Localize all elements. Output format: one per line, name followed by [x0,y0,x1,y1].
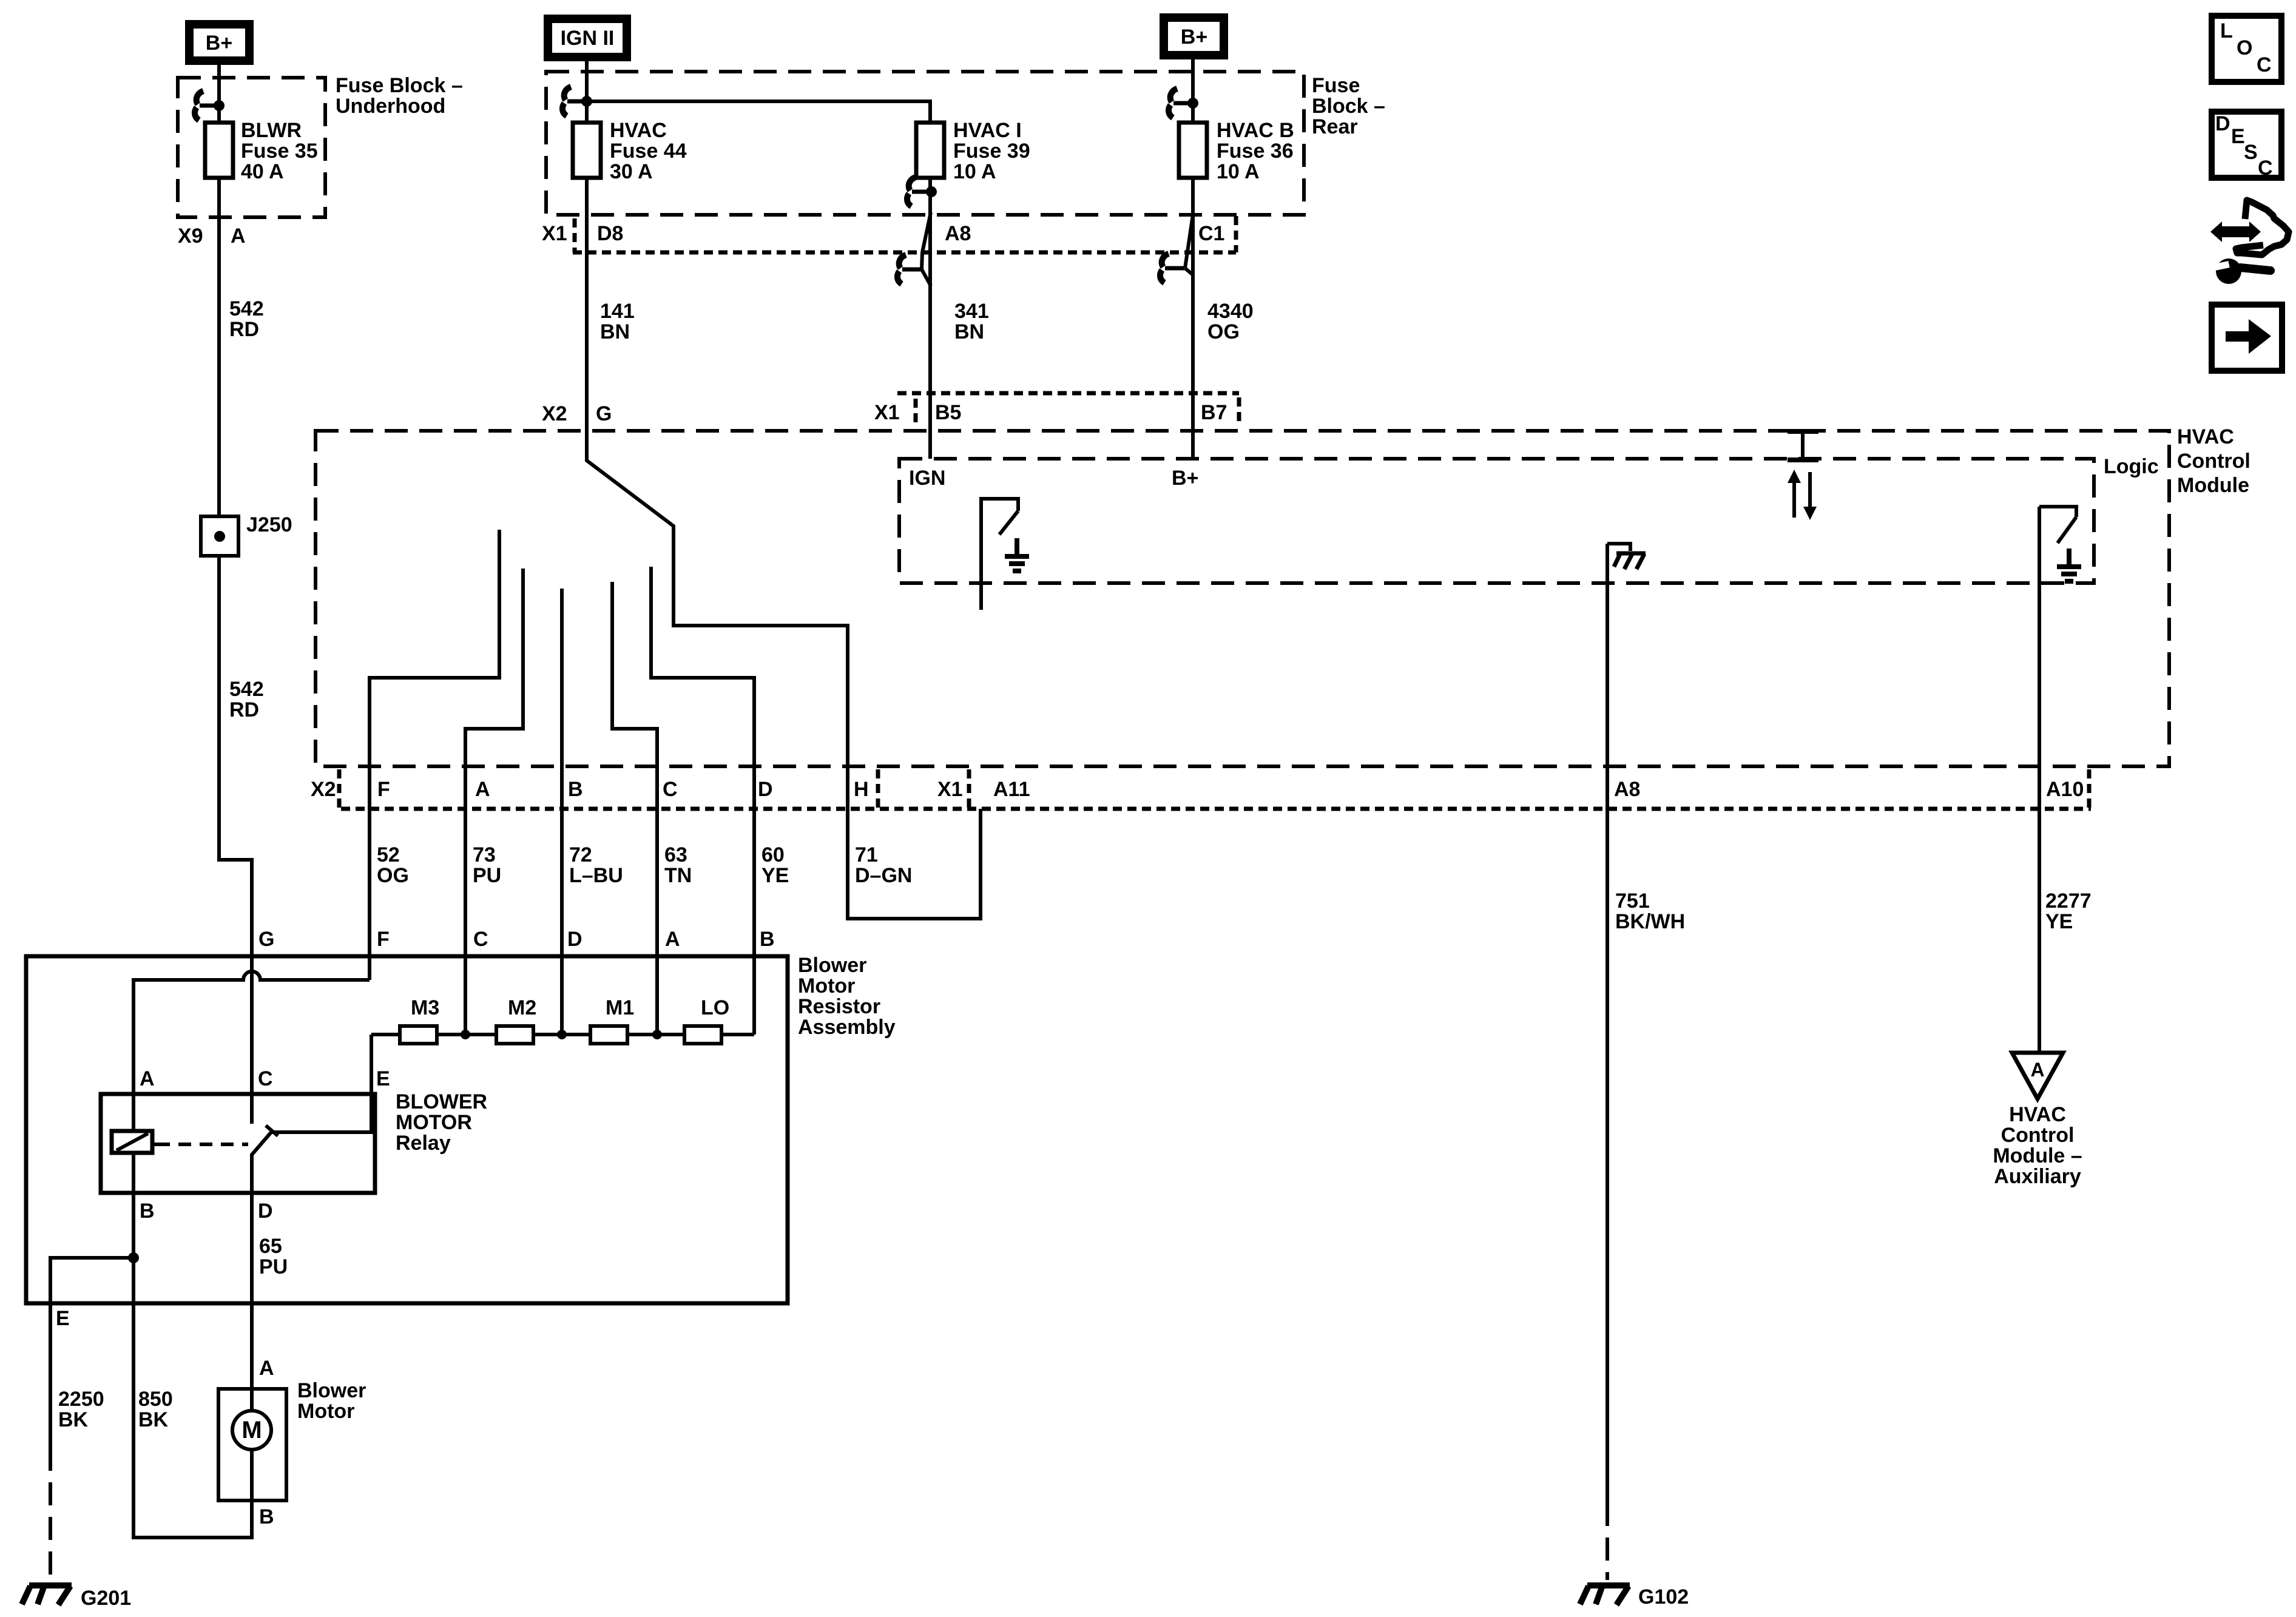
svg-text:D: D [758,778,773,801]
svg-text:X1: X1 [542,222,567,245]
svg-text:G102: G102 [1638,1585,1689,1609]
svg-text:OG: OG [1207,320,1240,343]
svg-text:A: A [231,224,246,248]
svg-text:2250: 2250 [58,1388,104,1411]
svg-text:B: B [140,1200,155,1223]
svg-text:D: D [567,928,582,951]
svg-text:B+: B+ [1172,467,1198,490]
svg-text:73: 73 [473,843,496,866]
svg-text:L: L [2220,19,2233,42]
svg-text:M2: M2 [508,996,536,1019]
svg-text:HVAC B: HVAC B [1217,119,1294,142]
svg-text:141: 141 [600,300,635,323]
svg-text:A: A [259,1357,274,1380]
svg-text:C: C [663,778,678,801]
svg-text:HVAC: HVAC [2009,1103,2066,1126]
svg-text:A8: A8 [1614,778,1640,801]
svg-text:B: B [760,928,775,951]
svg-text:BN: BN [954,320,984,343]
svg-text:850: 850 [138,1388,173,1411]
svg-text:X1: X1 [874,401,900,424]
svg-text:X9: X9 [178,224,203,248]
svg-text:O: O [2237,36,2252,59]
svg-text:Control: Control [2001,1124,2075,1147]
svg-text:60: 60 [761,843,785,866]
svg-text:751: 751 [1615,890,1650,913]
svg-text:2277: 2277 [2045,890,2092,913]
svg-text:G: G [258,928,274,951]
svg-text:A10: A10 [2046,778,2084,801]
svg-text:YE: YE [761,864,789,887]
svg-text:PU: PU [473,864,501,887]
svg-text:E: E [2231,125,2245,148]
svg-text:E: E [376,1067,390,1090]
svg-text:M1: M1 [606,996,634,1019]
svg-text:Fuse 44: Fuse 44 [610,140,687,163]
svg-text:A: A [2030,1059,2044,1081]
svg-text:Motor: Motor [798,974,855,998]
svg-text:Fuse: Fuse [1312,74,1360,97]
svg-text:B5: B5 [935,401,961,424]
svg-text:J250: J250 [246,513,292,536]
svg-text:C1: C1 [1198,222,1224,245]
svg-text:HVAC I: HVAC I [953,119,1022,142]
svg-text:E: E [56,1307,70,1330]
svg-text:C: C [258,1067,273,1090]
svg-text:Fuse Block –: Fuse Block – [336,74,463,97]
svg-text:542: 542 [229,297,264,320]
svg-text:A: A [475,778,490,801]
svg-text:M: M [241,1417,262,1443]
svg-text:Rear: Rear [1312,115,1358,138]
svg-text:Fuse 36: Fuse 36 [1217,140,1294,163]
svg-text:BK: BK [138,1408,169,1431]
svg-text:F: F [377,778,390,801]
svg-text:B: B [568,778,583,801]
svg-text:BN: BN [600,320,630,343]
svg-text:PU: PU [259,1255,288,1278]
svg-text:D8: D8 [597,222,623,245]
svg-text:BLOWER: BLOWER [396,1090,487,1113]
svg-text:C: C [2258,157,2273,180]
svg-text:Control: Control [2177,450,2250,473]
svg-text:BK: BK [58,1408,89,1431]
svg-text:Auxiliary: Auxiliary [1994,1165,2081,1188]
svg-text:Module –: Module – [1993,1144,2082,1167]
svg-text:B: B [259,1505,274,1528]
svg-text:Logic: Logic [2104,455,2159,478]
svg-text:A: A [140,1067,155,1090]
svg-text:B7: B7 [1201,401,1227,424]
svg-text:X2: X2 [542,402,567,425]
svg-text:TN: TN [664,864,692,887]
svg-text:A11: A11 [993,778,1030,801]
svg-text:C: C [2257,53,2272,76]
svg-text:Fuse 39: Fuse 39 [953,140,1030,163]
svg-text:MOTOR: MOTOR [396,1111,472,1134]
svg-text:HVAC: HVAC [2177,425,2234,448]
svg-text:Blower: Blower [297,1379,366,1402]
svg-text:Block –: Block – [1312,95,1385,118]
svg-text:72: 72 [569,843,592,866]
svg-text:RD: RD [229,698,259,721]
svg-text:Underhood: Underhood [336,95,445,118]
svg-text:D–GN: D–GN [855,864,912,887]
svg-text:Assembly: Assembly [798,1016,896,1039]
svg-text:IGN: IGN [909,467,945,490]
svg-text:71: 71 [855,843,878,866]
svg-text:H: H [854,778,869,801]
svg-text:Fuse 35: Fuse 35 [241,140,318,163]
svg-text:4340: 4340 [1207,300,1254,323]
svg-text:YE: YE [2045,910,2073,933]
svg-text:G: G [596,402,612,425]
svg-text:10 A: 10 A [1217,160,1260,183]
svg-text:40 A: 40 A [241,160,284,183]
svg-text:Motor: Motor [297,1400,354,1423]
svg-text:Blower: Blower [798,954,866,977]
svg-text:10 A: 10 A [953,160,996,183]
svg-text:A8: A8 [945,222,971,245]
svg-text:B+: B+ [206,32,232,55]
svg-text:OG: OG [377,864,409,887]
svg-text:IGN II: IGN II [561,27,615,50]
svg-text:52: 52 [377,843,400,866]
svg-text:X1: X1 [937,778,963,801]
svg-text:RD: RD [229,318,259,341]
svg-text:D: D [258,1200,273,1223]
svg-text:341: 341 [954,300,989,323]
svg-text:Resistor: Resistor [798,995,880,1018]
svg-text:65: 65 [259,1235,282,1258]
svg-text:Module: Module [2177,474,2249,497]
svg-text:542: 542 [229,678,264,701]
svg-text:63: 63 [664,843,687,866]
svg-text:L–BU: L–BU [569,864,623,887]
svg-text:B+: B+ [1181,25,1207,49]
svg-text:D: D [2215,112,2230,135]
svg-text:S: S [2244,141,2258,164]
svg-text:Relay: Relay [396,1132,451,1155]
svg-text:F: F [377,928,390,951]
svg-text:A: A [665,928,680,951]
svg-text:X2: X2 [311,778,336,801]
svg-text:BK/WH: BK/WH [1615,910,1685,933]
svg-text:30 A: 30 A [610,160,653,183]
svg-text:LO: LO [701,996,729,1019]
svg-text:HVAC: HVAC [610,119,667,142]
svg-text:G201: G201 [81,1587,131,1610]
svg-text:BLWR: BLWR [241,119,302,142]
svg-text:C: C [473,928,488,951]
svg-text:M3: M3 [411,996,439,1019]
